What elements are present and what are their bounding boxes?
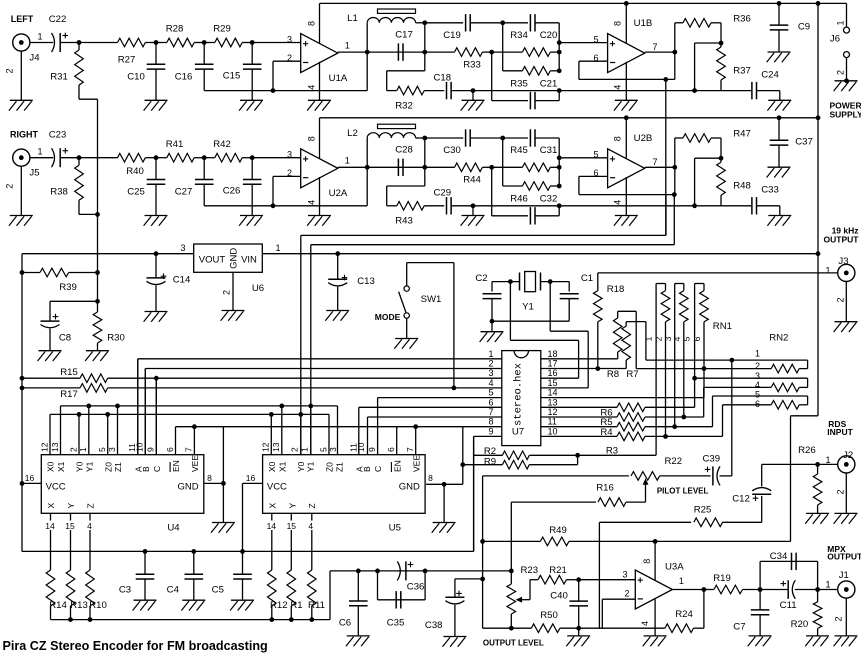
svg-text:R22: R22 — [664, 456, 682, 467]
svg-text:6: 6 — [593, 53, 598, 63]
svg-text:2: 2 — [5, 68, 15, 73]
svg-text:MODE: MODE — [375, 312, 401, 322]
svg-text:12: 12 — [548, 407, 558, 417]
svg-text:C1: C1 — [581, 273, 593, 284]
svg-text:18: 18 — [548, 349, 558, 359]
svg-text:C15: C15 — [223, 71, 241, 82]
svg-text:2: 2 — [222, 290, 232, 295]
svg-text:5: 5 — [593, 34, 598, 44]
svg-text:C9: C9 — [798, 21, 810, 32]
svg-text:R50: R50 — [540, 610, 558, 621]
svg-text:R12: R12 — [270, 600, 288, 611]
svg-text:8: 8 — [488, 417, 493, 427]
svg-text:3: 3 — [180, 243, 185, 253]
svg-text:VOUT: VOUT — [199, 255, 226, 266]
svg-text:15: 15 — [548, 378, 558, 388]
svg-text:GND: GND — [399, 481, 420, 492]
svg-text:U1B: U1B — [634, 18, 653, 29]
svg-text:8: 8 — [307, 136, 317, 141]
svg-text:VCC: VCC — [46, 481, 66, 492]
svg-text:X0: X0 — [46, 461, 56, 472]
svg-text:1: 1 — [37, 147, 42, 157]
svg-text:L1: L1 — [347, 13, 358, 24]
svg-text:J4: J4 — [29, 53, 40, 64]
svg-text:16: 16 — [548, 368, 558, 378]
svg-text:VEE: VEE — [190, 455, 200, 472]
svg-text:4: 4 — [307, 85, 317, 90]
svg-text:X1: X1 — [277, 461, 287, 472]
svg-text:3: 3 — [107, 447, 117, 452]
svg-text:3: 3 — [287, 150, 292, 160]
svg-text:VCC: VCC — [267, 481, 287, 492]
svg-text:X: X — [267, 503, 277, 509]
svg-text:14: 14 — [267, 521, 277, 531]
svg-text:16: 16 — [25, 473, 35, 483]
svg-text:R4: R4 — [600, 427, 613, 438]
svg-text:3: 3 — [328, 447, 338, 452]
svg-text:C38: C38 — [425, 620, 443, 631]
svg-text:8: 8 — [207, 473, 212, 483]
svg-text:C32: C32 — [540, 194, 558, 205]
svg-text:C24: C24 — [761, 70, 779, 81]
svg-text:R9: R9 — [484, 456, 496, 467]
svg-text:R2: R2 — [484, 446, 496, 457]
svg-text:R43: R43 — [395, 216, 413, 227]
svg-text:4: 4 — [307, 200, 317, 205]
svg-text:RIGHT: RIGHT — [10, 129, 39, 139]
svg-text:Y1: Y1 — [522, 302, 534, 313]
svg-text:1: 1 — [299, 447, 309, 452]
svg-text:Z: Z — [307, 503, 317, 508]
svg-text:C11: C11 — [780, 600, 797, 611]
svg-text:3: 3 — [287, 34, 292, 44]
svg-text:5: 5 — [97, 447, 107, 452]
svg-text:OUTPUT: OUTPUT — [827, 552, 861, 562]
svg-text:15: 15 — [287, 521, 297, 531]
svg-text:SW1: SW1 — [421, 294, 442, 305]
svg-text:Y1: Y1 — [84, 461, 94, 472]
svg-text:C3: C3 — [119, 585, 131, 596]
svg-text:12: 12 — [39, 442, 49, 452]
svg-text:1: 1 — [755, 348, 760, 358]
svg-text:C39: C39 — [702, 453, 720, 464]
svg-text:7: 7 — [652, 157, 657, 167]
svg-text:GND: GND — [229, 248, 240, 269]
svg-text:2: 2 — [836, 70, 846, 75]
svg-text:U4: U4 — [167, 522, 180, 533]
svg-text:C22: C22 — [49, 14, 67, 25]
svg-text:C31: C31 — [540, 145, 558, 156]
svg-text:1: 1 — [679, 576, 684, 586]
svg-text:5: 5 — [488, 388, 493, 398]
svg-text:Y: Y — [287, 503, 297, 509]
svg-text:C8: C8 — [59, 332, 71, 343]
svg-text:C40: C40 — [550, 590, 568, 601]
svg-text:L2: L2 — [347, 128, 358, 139]
svg-text:C14: C14 — [173, 275, 191, 286]
svg-text:1: 1 — [836, 20, 846, 25]
svg-text:J1: J1 — [839, 570, 849, 581]
svg-text:10: 10 — [356, 442, 366, 452]
svg-text:2: 2 — [624, 588, 629, 598]
svg-text:R1: R1 — [290, 600, 302, 611]
svg-text:14: 14 — [45, 521, 55, 531]
svg-text:2: 2 — [287, 168, 292, 178]
svg-text:R41: R41 — [166, 139, 184, 150]
svg-text:R34: R34 — [510, 30, 528, 41]
svg-text:INPUT: INPUT — [827, 427, 853, 437]
svg-text:1: 1 — [275, 243, 280, 253]
svg-text:C19: C19 — [443, 30, 461, 41]
svg-text:C12: C12 — [732, 494, 750, 505]
svg-text:C4: C4 — [167, 585, 180, 596]
svg-text:13: 13 — [548, 397, 558, 407]
svg-text:C23: C23 — [49, 129, 67, 140]
svg-text:R46: R46 — [510, 194, 528, 205]
svg-text:10: 10 — [135, 442, 145, 452]
svg-text:4: 4 — [308, 521, 313, 531]
svg-text:X1: X1 — [56, 461, 66, 472]
svg-text:R38: R38 — [50, 187, 68, 198]
svg-text:U6: U6 — [252, 283, 264, 294]
svg-text:R3: R3 — [606, 446, 618, 457]
svg-text:EN: EN — [392, 460, 402, 472]
svg-text:LEFT: LEFT — [11, 14, 34, 24]
svg-text:5: 5 — [681, 336, 691, 341]
svg-text:C28: C28 — [395, 145, 413, 156]
svg-text:J6: J6 — [830, 34, 840, 45]
svg-text:2: 2 — [68, 447, 78, 452]
svg-text:R48: R48 — [733, 181, 751, 192]
svg-text:R11: R11 — [308, 600, 325, 611]
svg-text:J3: J3 — [838, 256, 848, 267]
svg-text:Z0: Z0 — [325, 462, 335, 472]
svg-text:1: 1 — [825, 266, 830, 276]
svg-text:C30: C30 — [443, 145, 461, 156]
svg-text:stereo.hex: stereo.hex — [513, 363, 525, 426]
svg-text:R17: R17 — [60, 389, 78, 400]
svg-text:15: 15 — [65, 521, 75, 531]
svg-text:Z1: Z1 — [113, 462, 123, 472]
svg-text:U2B: U2B — [634, 133, 653, 144]
svg-text:R13: R13 — [70, 600, 88, 611]
svg-text:C: C — [373, 466, 383, 472]
svg-text:5: 5 — [593, 150, 598, 160]
svg-text:4: 4 — [488, 378, 493, 388]
svg-text:C29: C29 — [433, 188, 451, 199]
svg-text:5: 5 — [318, 447, 328, 452]
svg-text:4: 4 — [613, 85, 623, 90]
svg-text:14: 14 — [548, 388, 558, 398]
svg-text:8: 8 — [613, 21, 623, 26]
svg-text:2: 2 — [834, 616, 844, 621]
svg-text:C33: C33 — [761, 185, 779, 196]
svg-text:1: 1 — [825, 455, 830, 465]
svg-text:Z1: Z1 — [334, 462, 344, 472]
svg-text:R10: R10 — [89, 600, 107, 611]
svg-text:1: 1 — [825, 579, 830, 589]
svg-text:EN: EN — [171, 460, 181, 472]
svg-text:U3A: U3A — [665, 561, 684, 572]
svg-text:2: 2 — [836, 489, 846, 494]
svg-text:9: 9 — [367, 447, 377, 452]
svg-text:R30: R30 — [107, 332, 125, 343]
svg-text:2: 2 — [755, 361, 760, 371]
svg-text:9: 9 — [488, 426, 493, 436]
svg-text:R18: R18 — [607, 284, 625, 295]
svg-text:R39: R39 — [59, 282, 77, 293]
svg-text:2: 2 — [287, 53, 292, 63]
svg-text:C35: C35 — [387, 618, 405, 629]
svg-text:R37: R37 — [733, 66, 751, 77]
svg-text:C25: C25 — [127, 187, 145, 198]
svg-text:C21: C21 — [540, 78, 558, 89]
svg-text:C20: C20 — [540, 30, 558, 41]
svg-text:R35: R35 — [510, 78, 528, 89]
svg-text:1: 1 — [345, 156, 350, 166]
svg-text:11: 11 — [548, 417, 557, 427]
svg-text:VEE: VEE — [411, 455, 421, 472]
svg-text:10: 10 — [548, 426, 558, 436]
svg-text:7: 7 — [405, 447, 415, 452]
svg-text:C5: C5 — [212, 585, 224, 596]
svg-text:C36: C36 — [407, 581, 425, 592]
svg-text:Z: Z — [86, 503, 96, 508]
svg-text:U2A: U2A — [329, 188, 348, 199]
svg-text:C10: C10 — [127, 72, 145, 83]
svg-text:C2: C2 — [475, 273, 487, 284]
svg-text:R40: R40 — [126, 166, 144, 177]
svg-text:Z0: Z0 — [103, 462, 113, 472]
svg-text:B: B — [362, 466, 372, 472]
svg-text:R8: R8 — [607, 369, 619, 380]
svg-text:13: 13 — [50, 442, 60, 452]
svg-text:R26: R26 — [798, 445, 816, 456]
svg-text:R25: R25 — [694, 504, 712, 515]
svg-text:8: 8 — [642, 559, 652, 564]
svg-text:8: 8 — [428, 473, 433, 483]
svg-text:1: 1 — [345, 40, 350, 50]
svg-text:8: 8 — [613, 136, 623, 141]
svg-text:17: 17 — [548, 359, 558, 369]
svg-text:Y0: Y0 — [296, 461, 306, 472]
svg-text:6: 6 — [692, 336, 702, 341]
svg-text:4: 4 — [87, 521, 92, 531]
svg-text:1: 1 — [488, 349, 493, 359]
svg-text:1: 1 — [78, 447, 88, 452]
svg-text:9: 9 — [146, 447, 156, 452]
svg-text:C34: C34 — [770, 551, 788, 562]
svg-text:PILOT LEVEL: PILOT LEVEL — [657, 486, 709, 495]
svg-text:6: 6 — [488, 397, 493, 407]
svg-text:R14: R14 — [49, 600, 67, 611]
svg-text:R45: R45 — [510, 145, 528, 156]
svg-text:R28: R28 — [166, 24, 184, 35]
svg-text:R19: R19 — [713, 573, 731, 584]
svg-text:C6: C6 — [339, 618, 351, 629]
svg-text:Y: Y — [66, 503, 76, 509]
svg-text:J2: J2 — [843, 450, 853, 461]
svg-text:13: 13 — [271, 442, 281, 452]
svg-text:7: 7 — [652, 42, 657, 52]
svg-text:R20: R20 — [791, 619, 809, 630]
svg-text:2: 2 — [836, 297, 846, 302]
svg-text:R36: R36 — [733, 14, 751, 25]
svg-text:C18: C18 — [433, 72, 451, 83]
svg-text:6: 6 — [593, 168, 598, 178]
svg-text:X: X — [46, 503, 56, 509]
svg-text:J5: J5 — [29, 168, 39, 179]
svg-text:X0: X0 — [267, 461, 277, 472]
svg-text:RN2: RN2 — [769, 333, 788, 344]
svg-text:SUPPLY: SUPPLY — [830, 110, 861, 120]
svg-text:OUTPUT LEVEL: OUTPUT LEVEL — [483, 639, 544, 648]
svg-text:12: 12 — [261, 442, 271, 452]
svg-text:C: C — [152, 466, 162, 472]
svg-text:C13: C13 — [357, 276, 375, 287]
svg-text:1: 1 — [643, 336, 653, 341]
svg-text:6: 6 — [165, 447, 175, 452]
svg-text:7: 7 — [488, 407, 493, 417]
svg-text:R32: R32 — [395, 101, 413, 112]
svg-text:R42: R42 — [213, 139, 231, 150]
svg-text:3: 3 — [622, 569, 627, 579]
svg-text:Pira CZ Stereo Encoder for FM: Pira CZ Stereo Encoder for FM broadcasti… — [3, 639, 268, 653]
svg-text:R31: R31 — [50, 72, 68, 83]
svg-text:Y0: Y0 — [75, 461, 85, 472]
svg-text:U1A: U1A — [329, 73, 348, 84]
svg-text:2: 2 — [5, 184, 15, 189]
svg-text:R7: R7 — [626, 369, 638, 380]
svg-text:R47: R47 — [733, 129, 751, 140]
svg-text:GND: GND — [177, 481, 198, 492]
svg-text:U7: U7 — [512, 427, 524, 438]
svg-text:C16: C16 — [175, 72, 193, 83]
svg-text:C26: C26 — [223, 186, 241, 197]
svg-text:R15: R15 — [60, 367, 78, 378]
svg-text:R16: R16 — [596, 482, 614, 493]
svg-text:RN1: RN1 — [713, 321, 732, 332]
svg-text:5: 5 — [755, 389, 760, 399]
svg-text:4: 4 — [613, 200, 623, 205]
svg-text:6: 6 — [386, 447, 396, 452]
svg-text:7: 7 — [184, 447, 194, 452]
svg-text:C17: C17 — [395, 30, 413, 41]
svg-text:R49: R49 — [549, 525, 567, 536]
svg-text:B: B — [141, 466, 151, 472]
svg-text:R29: R29 — [213, 24, 231, 35]
svg-text:2: 2 — [290, 447, 300, 452]
svg-text:R24: R24 — [675, 609, 693, 620]
svg-text:R27: R27 — [118, 55, 136, 66]
svg-text:1: 1 — [37, 32, 42, 42]
svg-text:8: 8 — [307, 21, 317, 26]
svg-text:U5: U5 — [389, 522, 401, 533]
svg-text:OUTPUT: OUTPUT — [824, 235, 860, 245]
svg-text:16: 16 — [246, 473, 256, 483]
svg-text:R33: R33 — [463, 59, 481, 70]
svg-text:R21: R21 — [549, 565, 567, 576]
svg-text:3: 3 — [488, 368, 493, 378]
svg-text:C7: C7 — [733, 621, 745, 632]
svg-text:C27: C27 — [175, 187, 193, 198]
svg-text:Y1: Y1 — [306, 461, 316, 472]
svg-text:6: 6 — [755, 399, 760, 409]
svg-text:R23: R23 — [520, 565, 538, 576]
svg-text:4: 4 — [640, 621, 650, 626]
svg-text:2: 2 — [488, 359, 493, 369]
svg-text:R44: R44 — [463, 175, 481, 186]
svg-text:C37: C37 — [795, 137, 813, 148]
svg-text:VIN: VIN — [241, 255, 257, 266]
